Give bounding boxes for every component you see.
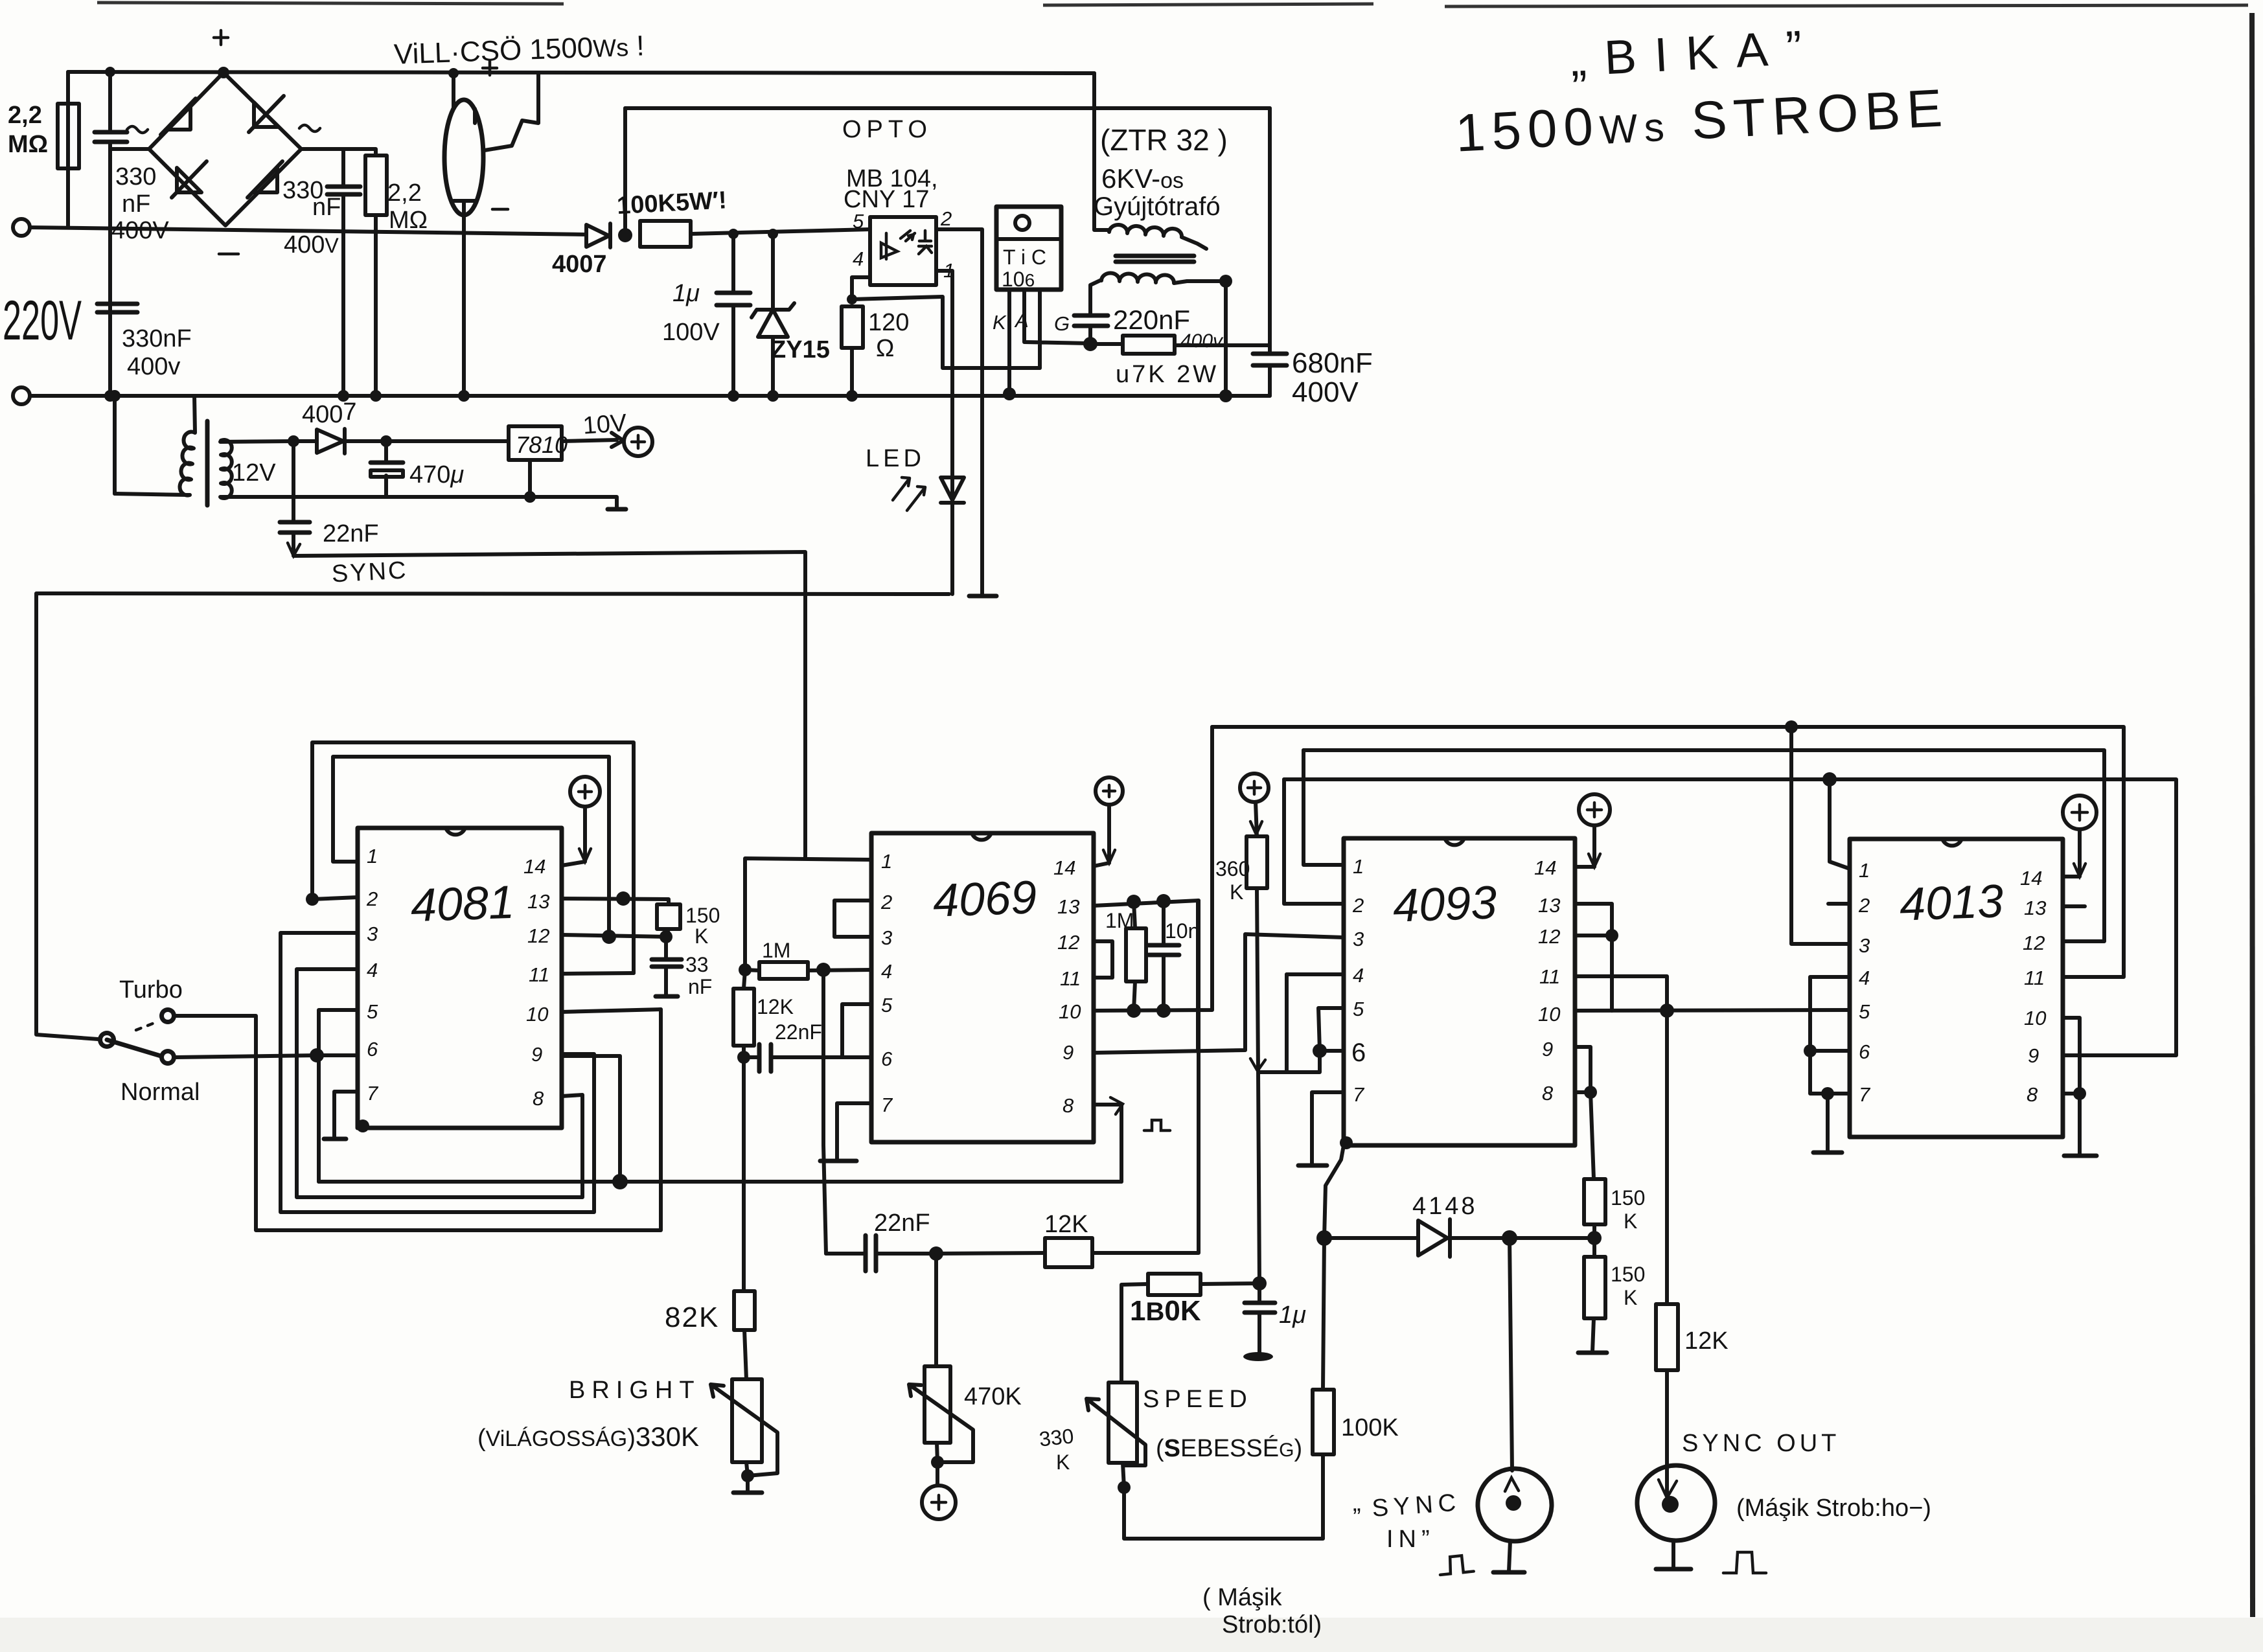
- ground 1u: [1243, 1352, 1273, 1361]
- resistor R 150K: [657, 904, 680, 929]
- svg-text:14: 14: [1534, 856, 1556, 879]
- bridge diode D4 (lower right): [247, 161, 282, 198]
- power circle 4069: [1096, 777, 1123, 805]
- svg-text:4: 4: [1859, 967, 1870, 989]
- svg-text:1: 1: [881, 850, 892, 873]
- switch common node: [98, 1031, 116, 1049]
- svg-text:10V: 10V: [582, 409, 628, 440]
- node rail A / 4013 p3 drop: [1785, 720, 1798, 733]
- svg-text:2: 2: [1352, 894, 1364, 917]
- bridge ~ marks: [127, 125, 320, 133]
- svg-text:1: 1: [1353, 855, 1364, 878]
- wire: pin9-8 jumper: [1575, 1047, 1591, 1092]
- svg-text:1B0K: 1B0K: [1130, 1295, 1201, 1327]
- svg-text:3: 3: [1353, 928, 1364, 950]
- wire: down-left feed to PSU trafo: [113, 396, 117, 494]
- resistor R 2.2M input: [58, 104, 79, 168]
- node 1M/12K: [739, 963, 752, 976]
- wire: pin12 to 150K bottom: [562, 935, 666, 937]
- svg-text:13: 13: [2024, 897, 2046, 919]
- svg-text:4081: 4081: [410, 877, 516, 932]
- svg-text:u7K 2W: u7K 2W: [1116, 361, 1219, 388]
- svg-text:680nF: 680nF: [1292, 347, 1373, 379]
- resistor R 12K sync out: [1656, 1304, 1678, 1370]
- svg-text:12K: 12K: [1044, 1211, 1088, 1238]
- wire: pin13 to 1M2/10n: [1094, 901, 1199, 906]
- node: [288, 435, 299, 447]
- svg-text:400v: 400v: [1180, 330, 1224, 352]
- svg-text:SYNC OUT: SYNC OUT: [1682, 1430, 1840, 1457]
- svg-text:13: 13: [1057, 895, 1079, 918]
- capacitor C 680nF: [1253, 354, 1287, 365]
- resistor R 1M vertical: [1126, 928, 1146, 981]
- transformer T 12V secondary: [221, 440, 232, 498]
- svg-text:11: 11: [1060, 967, 1081, 990]
- svg-text:14: 14: [523, 855, 546, 878]
- node: [380, 435, 392, 447]
- svg-text:11: 11: [2024, 967, 2045, 989]
- bridge diode D3 (lower left): [172, 161, 207, 198]
- node: [728, 229, 739, 239]
- wire: 82K feed down: [742, 1057, 746, 1291]
- svg-text:K: K: [1230, 880, 1243, 904]
- svg-text:3: 3: [1859, 934, 1870, 957]
- wire: pin5 into node: [319, 1010, 358, 1182]
- svg-text:K: K: [1056, 1451, 1070, 1474]
- svg-text:MΩ: MΩ: [389, 207, 428, 234]
- svg-text:10: 10: [2024, 1007, 2046, 1029]
- node sync-in tap: [1502, 1230, 1517, 1246]
- wire: rail2 right end down through 680nF: [1268, 108, 1272, 396]
- node pin6/switch: [310, 1048, 324, 1062]
- wire: power arrow to pin14: [2063, 829, 2080, 877]
- bridge diode D1 (upper left): [161, 98, 196, 135]
- bridge node top: [218, 67, 229, 78]
- svg-text:6KV-os: 6KV-os: [1101, 163, 1184, 194]
- svg-text:5: 5: [1353, 998, 1364, 1020]
- wire: pin7 ground stem: [1826, 1094, 1830, 1151]
- tube trigger electrode: [485, 73, 538, 150]
- svg-text:12: 12: [1057, 931, 1079, 954]
- wire: top + rail y111: [68, 72, 1094, 73]
- power circle 4093: [1579, 794, 1610, 825]
- opto internals: [881, 231, 932, 259]
- svg-text:150: 150: [1611, 1263, 1645, 1286]
- svg-text:7: 7: [881, 1094, 893, 1116]
- wire: pin4 jumper: [1287, 972, 1344, 976]
- svg-text:330nF: 330nF: [122, 325, 192, 352]
- node K on rail: [1003, 387, 1016, 400]
- terminal input L1: [13, 219, 30, 236]
- node cap2 bottom: [338, 390, 349, 402]
- capacitor C 22nF timing2: [826, 1252, 936, 1256]
- wire: sync in tap down to connector: [1510, 1238, 1512, 1471]
- wire: pin8 pulse out: [1094, 1105, 1121, 1182]
- pulse symbol: [1144, 1120, 1170, 1130]
- svg-text:Strob:tól): Strob:tól): [1222, 1611, 1322, 1638]
- svg-text:1: 1: [367, 845, 378, 867]
- node 12K bottom / 22nF: [737, 1051, 750, 1064]
- zener D ZY15: [752, 234, 794, 396]
- svg-text:5: 5: [881, 994, 893, 1016]
- svg-text:(ZTR 32 ): (ZTR 32 ): [1100, 123, 1228, 157]
- IC U2 4069 box: [871, 833, 1094, 1142]
- wire: pin13 stub: [2063, 904, 2085, 908]
- power circle 4081: [570, 777, 600, 807]
- svg-text:9: 9: [531, 1043, 542, 1066]
- svg-text:100K5W′!: 100K5W′!: [616, 187, 728, 220]
- node: [846, 390, 858, 402]
- svg-text:22nF: 22nF: [874, 1210, 930, 1237]
- resistor R 1M horizontal: [759, 962, 808, 979]
- svg-text:Ω: Ω: [876, 335, 894, 362]
- potentiometer P 470K: [934, 1254, 938, 1366]
- wire: 4093 corner down to 4148 node: [1324, 1145, 1344, 1238]
- wire: sync out ground: [1671, 1541, 1675, 1568]
- svg-text:11: 11: [529, 963, 549, 986]
- wire: opto pin4 to gate node: [852, 277, 1040, 368]
- svg-text:12: 12: [527, 924, 549, 947]
- wire: cap drop x170: [110, 72, 149, 396]
- wire: secondary right down to rail: [1224, 281, 1228, 396]
- switch contact Normal: [159, 1049, 176, 1066]
- wire: pot bottom loop to 100K: [1124, 1454, 1323, 1539]
- transformer core 12V: [205, 421, 210, 505]
- svg-text:10n: 10n: [1165, 919, 1199, 943]
- transformer T 12V primary: [115, 396, 195, 496]
- wire: 150K lower to ground: [1592, 1318, 1594, 1351]
- diode D 4148: [1324, 1219, 1594, 1257]
- svg-text:Normal: Normal: [121, 1079, 200, 1106]
- node: [847, 294, 857, 304]
- svg-text:9: 9: [1063, 1041, 1074, 1064]
- svg-text:7: 7: [367, 1082, 379, 1105]
- svg-text:2: 2: [880, 891, 892, 913]
- wire: opto pin2 down to ground: [936, 229, 982, 595]
- wire: opto pin1 down to LED: [936, 271, 952, 477]
- node 4148 left: [1316, 1230, 1332, 1246]
- svg-text:330: 330: [1038, 1424, 1075, 1451]
- svg-text:14: 14: [2020, 867, 2042, 889]
- TIC106 legs K A G: [1009, 290, 1088, 393]
- IC U3 4093 box: [1344, 838, 1575, 1145]
- node loopA/pin13: [616, 891, 630, 906]
- wire: pin10 to turbo loop: [562, 1009, 661, 1012]
- wire: to 7810: [386, 439, 509, 443]
- svg-text:ZY15: ZY15: [771, 336, 830, 363]
- ground psu: [608, 507, 626, 512]
- svg-text:12V: 12V: [232, 459, 276, 487]
- svg-text:8: 8: [1542, 1082, 1554, 1105]
- svg-text:(Máşik Strob:ho−): (Máşik Strob:ho−): [1736, 1495, 1931, 1522]
- svg-text:1M: 1M: [762, 939, 790, 962]
- node pin7 gnd: [1821, 1087, 1834, 1100]
- svg-text:10: 10: [1538, 1003, 1560, 1026]
- wire: L1 rail y350 to diode: [30, 227, 586, 235]
- wire: pin9 drop: [560, 1054, 564, 1055]
- wire: pin6 net: [1259, 974, 1344, 1072]
- wire: node up to rail2: [623, 108, 627, 235]
- svg-text:4: 4: [367, 959, 378, 981]
- ground 150K: [1578, 1351, 1607, 1355]
- svg-text:9: 9: [1542, 1038, 1553, 1061]
- node loopB/pin12: [602, 930, 616, 944]
- node pin8: [2073, 1087, 2086, 1100]
- ground 4093 pin7: [1298, 1164, 1327, 1168]
- tube + mark: [483, 61, 497, 75]
- wire: pin7 ground: [334, 1092, 358, 1138]
- wire: rail A (4069 p10 - 4013 p11): [1212, 727, 2124, 977]
- node: [1219, 389, 1232, 402]
- svg-text:K: K: [993, 311, 1007, 334]
- svg-text:120: 120: [868, 309, 909, 336]
- svg-text:82K: 82K: [665, 1302, 719, 1333]
- svg-text:10: 10: [526, 1003, 548, 1026]
- wire: 82K to BRIGHT pot: [744, 1330, 746, 1379]
- svg-text:4007: 4007: [552, 251, 607, 278]
- wire: 100K up to 4148 node: [1323, 1238, 1324, 1390]
- IC U4 4013 box: [1850, 839, 2063, 1137]
- ground 4013 pin8: [2064, 1154, 2096, 1158]
- capacitor C 22nF osc: [744, 1055, 871, 1059]
- node secondary right: [1219, 275, 1232, 288]
- svg-text:nF: nF: [122, 190, 150, 218]
- wire: secondary top to node: [220, 441, 293, 442]
- svg-text:9: 9: [2028, 1044, 2039, 1067]
- wire: rail C (4093 p2 - 4013 p9): [1284, 779, 2176, 1055]
- flash tube (vill-cső): [444, 100, 483, 215]
- svg-text:470K: 470K: [964, 1383, 1022, 1410]
- wire: secondary bottom return: [220, 460, 617, 508]
- svg-text:SYNC: SYNC: [331, 556, 409, 588]
- node 10n top: [1156, 894, 1171, 908]
- wire: 4013 pin1 drop: [1830, 779, 1850, 869]
- svg-text:4: 4: [1353, 964, 1364, 987]
- wire: left drop to resistor: [66, 72, 70, 227]
- node rail C / 4013 p1: [1822, 772, 1837, 786]
- power circle 360K: [1240, 774, 1269, 802]
- resistor R 100K: [1313, 1390, 1334, 1454]
- capacitor C 1u 100V: [731, 234, 735, 396]
- switch blade to Normal: [107, 1040, 165, 1057]
- capacitor C 22nF sync pickup: [292, 441, 295, 547]
- svg-text:11: 11: [1539, 965, 1560, 988]
- resistor R 4.7K 2W: [1123, 336, 1175, 354]
- node 1M right / pin4: [816, 963, 831, 977]
- transformer T ZTR32 primary: [1109, 225, 1206, 249]
- svg-text:12: 12: [2023, 932, 2045, 954]
- transformer core: [1116, 256, 1194, 262]
- terminal input L2: [13, 387, 30, 404]
- bridge rectifier diamond: [149, 73, 301, 225]
- wire: Normal to 4081 pin6: [176, 1055, 317, 1057]
- svg-text:1μ: 1μ: [672, 280, 700, 307]
- svg-text:BRIGHT: BRIGHT: [569, 1377, 701, 1404]
- wire: rail1 down to trafo primary: [1094, 73, 1109, 230]
- node: [105, 67, 115, 77]
- svg-text:400v: 400v: [127, 353, 180, 380]
- wire: A node to 4.7K: [1090, 342, 1123, 346]
- svg-text:4093: 4093: [1392, 877, 1498, 932]
- capacitor C 10n: [1162, 901, 1166, 1011]
- svg-text:4148: 4148: [1412, 1193, 1478, 1220]
- svg-text:22nF: 22nF: [775, 1020, 822, 1044]
- ground 4013 pin7: [1813, 1151, 1842, 1155]
- wire: secondary left down to 220nF: [1090, 280, 1101, 343]
- node 150K/33nF: [660, 930, 672, 943]
- node IC bottom left: [356, 1119, 369, 1132]
- resistor R 82K: [734, 1291, 755, 1330]
- wire: pin4 loop down: [297, 969, 582, 1197]
- wire: pin7 ground: [1312, 1092, 1344, 1164]
- svg-text:2: 2: [1858, 894, 1870, 917]
- thyristor Q TIC106: [996, 207, 1061, 290]
- svg-text:OPTO: OPTO: [842, 116, 932, 143]
- transformer T secondary: [1101, 273, 1226, 283]
- node 22nF2/470K: [929, 1246, 943, 1261]
- wire: LED anode from opto pin1 line: [950, 477, 954, 594]
- wire: rail B (4093 p1 - 4013 p12): [1304, 750, 2104, 941]
- connector SYNC OUT: [1637, 1465, 1715, 1541]
- svg-text:5: 5: [1859, 1000, 1870, 1023]
- svg-text:6: 6: [367, 1038, 378, 1061]
- wire: loopA pin2 to pin13: [312, 742, 634, 973]
- wire: pin5 jumper: [1318, 1008, 1344, 1051]
- node 1M2 bottom: [1127, 1004, 1141, 1018]
- LED D: [941, 477, 964, 503]
- svg-text:14: 14: [1053, 856, 1075, 879]
- resistor R 150K upper: [1584, 1179, 1605, 1224]
- wire: pin4-6-7 loop: [1808, 977, 1850, 1094]
- svg-text:400V: 400V: [1292, 376, 1359, 408]
- svg-text:6: 6: [1859, 1040, 1870, 1063]
- svg-text:1M: 1M: [1105, 909, 1134, 932]
- resistor R 360K: [1246, 836, 1267, 888]
- svg-text:7: 7: [1859, 1083, 1871, 1106]
- wire: pin4 node down to 22nF2: [823, 970, 826, 1254]
- node pin6: [1313, 1044, 1327, 1058]
- svg-text:7810: 7810: [516, 431, 568, 458]
- wire: power arrow to pin14: [1575, 825, 1594, 867]
- resistor R 180K: [1148, 1274, 1200, 1295]
- capacitor C 1u timer: [1258, 1283, 1261, 1353]
- svg-text:2: 2: [366, 888, 378, 910]
- svg-text:2,2: 2,2: [8, 102, 42, 129]
- svg-text:K: K: [1624, 1286, 1637, 1309]
- wire: pin2-3 jumper: [834, 901, 871, 937]
- LED arrows: [893, 477, 925, 511]
- wire: pin11: [562, 973, 634, 974]
- power circle 4013: [2063, 796, 2096, 829]
- node: [524, 491, 536, 503]
- svg-text:22nF: 22nF: [323, 520, 379, 547]
- svg-text:7: 7: [1353, 1083, 1365, 1106]
- node: [768, 229, 778, 239]
- node L2/cap: [104, 390, 116, 402]
- wire: pin1 stub: [869, 858, 873, 862]
- svg-text:A: A: [1014, 309, 1029, 332]
- wire: 360K down to 180K node with wiper arrow: [1257, 888, 1259, 1283]
- resistor R 100K 5W: [640, 221, 691, 247]
- wire: rail C left into 4093 pin2: [1284, 779, 1344, 904]
- svg-text:100V: 100V: [662, 319, 720, 346]
- svg-text:106: 106: [1002, 268, 1035, 291]
- resistor R 120 ohm: [842, 306, 863, 348]
- wire: pin8 down to 150K: [1591, 1092, 1594, 1179]
- node pin9 drop: [612, 1174, 628, 1189]
- svg-text:K: K: [1624, 1210, 1637, 1233]
- wire: circle to 360K: [1256, 802, 1257, 836]
- pulse symbol sync out: [1723, 1552, 1766, 1573]
- tube - mark: [492, 208, 508, 211]
- wire: pin6 from node: [317, 1053, 358, 1057]
- resistor R 150K lower: [1584, 1257, 1605, 1318]
- svg-text:13: 13: [1538, 894, 1560, 917]
- node pin12: [1605, 929, 1618, 942]
- svg-text:6: 6: [881, 1048, 893, 1070]
- svg-text:330: 330: [115, 163, 156, 190]
- ground 4081 pin7: [324, 1137, 346, 1141]
- capacitor C 330nF lower (across input): [97, 304, 137, 312]
- wire: loopB pin1 to pin12: [333, 757, 609, 937]
- svg-text:8: 8: [533, 1087, 544, 1110]
- bridge - mark: [219, 253, 238, 256]
- capacitor C 33nF: [664, 937, 668, 996]
- wire: pin7 ground: [837, 1103, 871, 1160]
- svg-text:400V: 400V: [111, 217, 169, 244]
- svg-text:1: 1: [1859, 859, 1870, 882]
- bridge diode D2 (upper right): [249, 96, 284, 132]
- node 180K/1u: [1252, 1276, 1267, 1291]
- resistor R 12K vertical: [733, 989, 754, 1046]
- scan right edge: [2252, 13, 2253, 1617]
- svg-text:nF: nF: [688, 975, 712, 998]
- svg-text:8: 8: [1063, 1094, 1074, 1117]
- svg-text:Gyújtótrafó: Gyújtótrafó: [1094, 192, 1221, 221]
- svg-text:1μ: 1μ: [1279, 1302, 1306, 1329]
- svg-text:33: 33: [685, 953, 709, 976]
- node pin2: [306, 893, 319, 906]
- wire: pin11 to 12K sync out: [1575, 976, 1667, 1304]
- svg-text:4013: 4013: [1899, 875, 2005, 931]
- svg-text:5: 5: [853, 210, 864, 233]
- svg-text:4069: 4069: [932, 871, 1038, 927]
- node 4148/150K: [1587, 1231, 1602, 1245]
- ground 4069 pin7: [820, 1159, 856, 1164]
- wire: pin10-8 jumper and ground: [2063, 1018, 2080, 1154]
- svg-text:13: 13: [527, 890, 549, 913]
- wire: rail B left into 4093 pin1: [1304, 750, 1344, 865]
- svg-text:K: K: [695, 924, 708, 948]
- svg-text:Turbo: Turbo: [119, 976, 183, 1004]
- diode D 4007 (HV): [586, 224, 610, 247]
- wire: 12K down to connector with arrow: [1665, 1370, 1669, 1497]
- wire: 4.7K to 680nF: [1175, 343, 1270, 347]
- svg-text:470μ: 470μ: [409, 461, 464, 488]
- wire: power arrow to pin14: [1094, 805, 1109, 866]
- svg-text:MΩ: MΩ: [8, 131, 48, 158]
- IC U1 4081 box: [358, 828, 562, 1128]
- wire: R2.2M right verticals: [343, 149, 376, 396]
- pulse symbol sync in: [1438, 1555, 1473, 1575]
- scan top edge: [97, 3, 2248, 6]
- bridge + mark: [214, 30, 228, 45]
- wire: long bottom wire y1824: [319, 1180, 1121, 1184]
- svg-text:10: 10: [1059, 1000, 1081, 1023]
- svg-text:400V: 400V: [284, 231, 339, 258]
- wire: sync arrow down: [293, 547, 805, 858]
- ground opto emitter: [969, 594, 996, 599]
